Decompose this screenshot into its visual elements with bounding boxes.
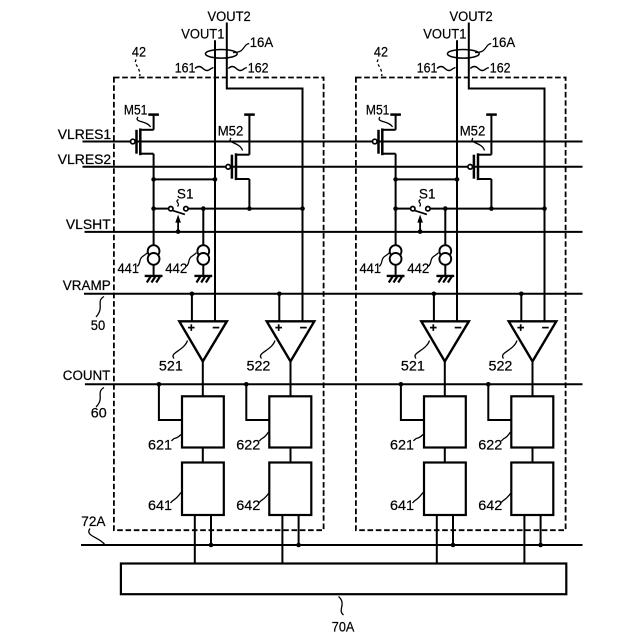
latch box 642 (block 2) bbox=[511, 463, 553, 516]
ground symbol under 442 (block 2) bbox=[436, 276, 454, 283]
current source 441 (block 2) bbox=[390, 209, 402, 275]
wire S1 row right segment (block 1) bbox=[188, 208, 302, 210]
current source 442 (block 2) bbox=[439, 209, 451, 275]
junction dot S1 row at M52 source (block 2) bbox=[489, 206, 494, 211]
svg-text:72A: 72A bbox=[81, 514, 106, 530]
control arrow from VLSHT to switch S1 (block 1) bbox=[177, 221, 179, 231]
junction dot S1 row at VOUT2 branch (block 2) bbox=[542, 206, 547, 211]
wire link M51 source to VOUT1 (block 2) bbox=[396, 178, 457, 180]
wire 642 output to 72A line (block 2) bbox=[540, 515, 542, 545]
wire 621 to 641 (block 1) bbox=[202, 448, 204, 463]
svg-text:COUNT: COUNT bbox=[63, 368, 111, 384]
svg-text:16A: 16A bbox=[250, 35, 274, 51]
wire VLSHT bus bbox=[85, 231, 583, 233]
svg-text:641: 641 bbox=[148, 498, 172, 514]
latch box 641 (block 1) bbox=[182, 463, 224, 516]
svg-text:M52: M52 bbox=[460, 124, 486, 140]
switch S1 blade (block 1) bbox=[172, 210, 185, 214]
svg-text:641: 641 bbox=[390, 498, 414, 514]
svg-text:642: 642 bbox=[478, 498, 502, 514]
wire plus input stub comparator 522 (block 2) bbox=[520, 294, 522, 322]
svg-text:VOUT2: VOUT2 bbox=[208, 9, 251, 25]
svg-text:VOUT1: VOUT1 bbox=[181, 27, 224, 43]
junction dot S1 row at current source 442 (block 2) bbox=[443, 206, 448, 211]
current source 441 (block 1) bbox=[148, 209, 160, 275]
wire COUNT L-stub into 622 (block 1) bbox=[246, 384, 269, 420]
wire plus input stub comparator 522 (block 1) bbox=[278, 294, 280, 322]
wire 72A horizontal line bbox=[81, 544, 583, 546]
junction dot S1 row at current source 442 (block 1) bbox=[201, 206, 206, 211]
wire comparator 522 output (block 2) bbox=[532, 361, 534, 396]
wire COUNT bus bbox=[85, 383, 583, 385]
bundle ellipse around lines 161 and 162 (block 2) bbox=[447, 50, 479, 59]
svg-text:S1: S1 bbox=[177, 186, 194, 202]
switch S1 left contact (block 1) bbox=[169, 207, 173, 211]
counter box 622 (block 1) bbox=[269, 396, 311, 447]
comparator 522 (block 1) bbox=[267, 321, 315, 361]
junction dot arrow base on VLSHT (block 1) bbox=[176, 229, 181, 234]
counter box 621 (block 1) bbox=[182, 396, 224, 447]
junction dot at VOUT1 link right (block 2) bbox=[455, 177, 460, 182]
wire S1 row left segment (block 1) bbox=[154, 208, 169, 210]
svg-text:161: 161 bbox=[175, 60, 196, 76]
wire 621 to 641 (block 2) bbox=[444, 448, 446, 463]
junction dot COUNT stub for 621 (block 2) bbox=[399, 382, 404, 387]
junction dot VRAMP to comparator 522 (block 2) bbox=[519, 292, 524, 297]
wire VOUT1 vertical (block 2) bbox=[456, 40, 458, 321]
current source 442 (block 1) bbox=[197, 209, 209, 275]
wire VOUT2 vertical with elbow to right branch (block 1) bbox=[227, 23, 303, 322]
svg-text:VLRES1: VLRES1 bbox=[58, 127, 112, 143]
switch S1 right contact (block 1) bbox=[184, 207, 188, 211]
wire VOUT2 vertical with elbow to right branch (block 2) bbox=[469, 23, 545, 322]
junction dot S1 row left (block 2) bbox=[393, 206, 398, 211]
svg-text:442: 442 bbox=[407, 261, 429, 277]
svg-text:522: 522 bbox=[489, 359, 513, 375]
wire plus input stub comparator 521 (block 1) bbox=[191, 294, 193, 322]
wire link M51 source to VOUT1 (block 1) bbox=[154, 178, 215, 180]
bottom block 70A bbox=[121, 564, 566, 595]
switch S1 left contact (block 2) bbox=[411, 207, 415, 211]
junction dot S1 row at VOUT2 branch (block 1) bbox=[300, 206, 305, 211]
comparator 522 (block 2) bbox=[509, 321, 557, 361]
svg-text:622: 622 bbox=[236, 437, 260, 453]
svg-text:441: 441 bbox=[360, 261, 382, 277]
wire plus input stub comparator 521 (block 2) bbox=[433, 294, 435, 322]
transistor M52 (block 1) bbox=[226, 115, 255, 209]
svg-text:642: 642 bbox=[236, 498, 260, 514]
svg-text:50: 50 bbox=[91, 318, 105, 334]
svg-text:VOUT1: VOUT1 bbox=[423, 27, 466, 43]
svg-text:M51: M51 bbox=[366, 103, 390, 119]
junction dot COUNT stub for 622 (block 1) bbox=[244, 382, 249, 387]
control arrow from VLSHT to switch S1 (block 2) bbox=[419, 221, 421, 231]
svg-text:442: 442 bbox=[165, 261, 187, 277]
junction dot at M51 source link left (block 1) bbox=[151, 177, 156, 182]
junction dot VRAMP to comparator 522 (block 1) bbox=[277, 292, 282, 297]
svg-text:622: 622 bbox=[478, 437, 502, 453]
svg-text:60: 60 bbox=[91, 405, 107, 421]
wire COUNT L-stub into 621 (block 2) bbox=[401, 384, 424, 420]
junction dot 642 on 72A (block 1) bbox=[296, 543, 301, 548]
svg-text:521: 521 bbox=[401, 359, 425, 375]
junction dot VRAMP to comparator 521 (block 2) bbox=[432, 292, 437, 297]
dashed block outline 42 (block 1) bbox=[114, 78, 324, 531]
svg-text:M51: M51 bbox=[124, 103, 148, 119]
transistor M51 (block 2) bbox=[373, 115, 401, 209]
junction dot 641 on 72A (block 1) bbox=[209, 543, 214, 548]
latch box 641 (block 2) bbox=[424, 463, 466, 516]
wire 641 output to 72A line (block 1) bbox=[210, 515, 212, 545]
svg-text:162: 162 bbox=[248, 60, 269, 76]
junction dot 642 on 72A (block 2) bbox=[538, 543, 543, 548]
junction dot arrow base on VLSHT (block 2) bbox=[418, 229, 423, 234]
svg-text:441: 441 bbox=[118, 261, 140, 277]
junction dot at M51 source link left (block 2) bbox=[393, 177, 398, 182]
comparator 521 (block 1) bbox=[179, 321, 227, 361]
svg-text:VLRES2: VLRES2 bbox=[58, 152, 112, 168]
ground symbol under 442 (block 1) bbox=[194, 276, 212, 283]
junction dot COUNT stub for 622 (block 2) bbox=[486, 382, 491, 387]
svg-text:621: 621 bbox=[148, 437, 172, 453]
wire COUNT L-stub into 622 (block 2) bbox=[488, 384, 511, 420]
wire 641 output to 70A (block 1) bbox=[194, 515, 196, 564]
wire 642 output to 70A (block 1) bbox=[281, 515, 283, 564]
junction dot S1 row left (block 1) bbox=[151, 206, 156, 211]
wire VOUT1 vertical (block 1) bbox=[214, 40, 216, 321]
wire 622 to 642 (block 2) bbox=[532, 448, 534, 463]
wire 642 output to 72A line (block 1) bbox=[298, 515, 300, 545]
junction dot at VOUT1 link right (block 1) bbox=[213, 177, 218, 182]
dashed block outline 42 (block 2) bbox=[356, 78, 566, 531]
junction dot COUNT stub for 621 (block 1) bbox=[157, 382, 162, 387]
transistor M51 (block 1) bbox=[131, 115, 159, 209]
svg-text:16A: 16A bbox=[492, 35, 516, 51]
svg-text:42: 42 bbox=[374, 44, 388, 60]
svg-text:VLSHT: VLSHT bbox=[66, 217, 111, 233]
wire S1 row left segment (block 2) bbox=[396, 208, 411, 210]
svg-text:70A: 70A bbox=[332, 619, 355, 635]
svg-text:M52: M52 bbox=[218, 124, 244, 140]
wire COUNT L-stub into 621 (block 1) bbox=[159, 384, 182, 420]
comparator 521 (block 2) bbox=[421, 321, 469, 361]
junction dot VRAMP to comparator 521 (block 1) bbox=[190, 292, 195, 297]
svg-text:42: 42 bbox=[132, 44, 146, 60]
bundle ellipse around lines 161 and 162 (block 1) bbox=[205, 50, 237, 59]
wire VRAMP bus bbox=[84, 293, 583, 295]
ground symbol under 441 (block 2) bbox=[387, 276, 405, 283]
svg-text:VOUT2: VOUT2 bbox=[450, 9, 493, 25]
junction dot 641 on 72A (block 2) bbox=[451, 543, 456, 548]
transistor M52 (block 2) bbox=[468, 115, 497, 209]
wire comparator 521 output (block 2) bbox=[444, 361, 446, 396]
wire 642 output to 70A (block 2) bbox=[523, 515, 525, 564]
svg-text:VRAMP: VRAMP bbox=[63, 278, 111, 294]
ground symbol under 441 (block 1) bbox=[145, 276, 163, 283]
svg-text:161: 161 bbox=[417, 60, 438, 76]
svg-text:162: 162 bbox=[490, 60, 511, 76]
svg-text:621: 621 bbox=[390, 437, 414, 453]
wire comparator 521 output (block 1) bbox=[202, 361, 204, 396]
switch S1 blade (block 2) bbox=[414, 210, 427, 214]
wire 622 to 642 (block 1) bbox=[290, 448, 292, 463]
latch box 642 (block 1) bbox=[269, 463, 311, 516]
wire VLRES1 bus bbox=[83, 141, 583, 143]
wire VLRES2 bus bbox=[83, 166, 583, 168]
wire 641 output to 70A (block 2) bbox=[436, 515, 438, 564]
counter box 621 (block 2) bbox=[424, 396, 466, 447]
switch S1 right contact (block 2) bbox=[426, 207, 430, 211]
svg-text:S1: S1 bbox=[419, 186, 436, 202]
svg-text:522: 522 bbox=[247, 359, 271, 375]
counter box 622 (block 2) bbox=[511, 396, 553, 447]
svg-text:521: 521 bbox=[159, 359, 183, 375]
wire comparator 522 output (block 1) bbox=[290, 361, 292, 396]
wire S1 row right segment (block 2) bbox=[430, 208, 544, 210]
junction dot S1 row at M52 source (block 1) bbox=[247, 206, 252, 211]
wire 641 output to 72A line (block 2) bbox=[452, 515, 454, 545]
